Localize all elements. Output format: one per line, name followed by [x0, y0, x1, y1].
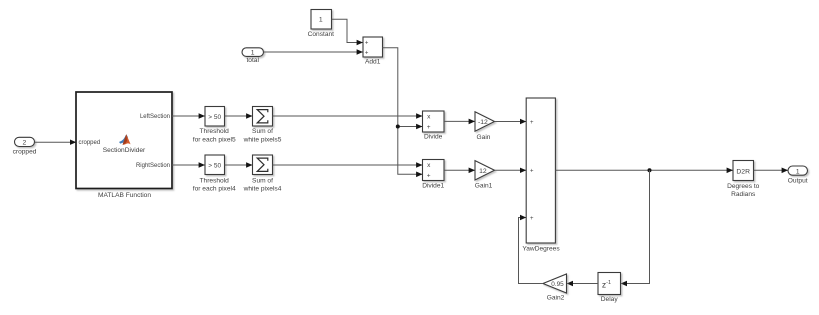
junction — [396, 125, 400, 129]
inport 1 total — [242, 48, 264, 57]
wire RightSection to Threshold4 — [172, 164, 205, 166]
wire branch to Divide second input — [398, 126, 423, 128]
svg-text:-12: -12 — [478, 119, 488, 126]
block Sum of white pixels4 — [253, 155, 273, 175]
wire Add1 to Divide1 second input — [382, 48, 422, 175]
svg-text:MATLAB Function: MATLAB Function — [98, 192, 151, 199]
MATLAB logo — [119, 134, 131, 145]
svg-text:1: 1 — [796, 168, 800, 175]
svg-text:Add1: Add1 — [365, 58, 381, 65]
svg-text:> 50: > 50 — [208, 114, 221, 121]
svg-text:SectionDivider: SectionDivider — [103, 147, 146, 154]
gain Gain1 — [475, 161, 495, 180]
svg-text:Sum of: Sum of — [252, 128, 273, 135]
wire Delay to Gain2 — [567, 283, 598, 285]
svg-text:+: + — [365, 41, 369, 47]
sum block YawDegrees — [526, 98, 555, 243]
wire Sum5 to Divide — [273, 115, 423, 117]
svg-text:Threshold: Threshold — [200, 177, 230, 184]
svg-text:2: 2 — [23, 139, 27, 146]
svg-text:Sum of: Sum of — [252, 177, 273, 184]
MATLAB Function block SectionDivider — [76, 92, 172, 189]
svg-text:+: + — [427, 124, 431, 131]
wire Gain2 to YawDegrees third input — [519, 218, 544, 284]
outport 1 Output — [788, 166, 808, 175]
svg-text:total: total — [246, 57, 259, 64]
svg-text:Gain1: Gain1 — [475, 183, 493, 190]
svg-text:Gain: Gain — [477, 134, 491, 141]
wire Constant to Add1 — [332, 19, 363, 42]
svg-text:YawDegrees: YawDegrees — [522, 245, 560, 252]
block Divide1 — [423, 160, 445, 181]
svg-text:Radians: Radians — [731, 191, 756, 198]
wire cropped to MATLAB Function — [35, 141, 76, 143]
svg-text:Delay: Delay — [601, 296, 619, 303]
svg-text:0.95: 0.95 — [551, 281, 564, 288]
svg-text:1: 1 — [251, 49, 255, 56]
svg-text:cropped: cropped — [13, 149, 37, 156]
block Divide — [423, 111, 445, 132]
block Threshold for each pixel5 — [205, 107, 225, 127]
gain Gain — [475, 112, 495, 131]
wire Divide to Gain — [444, 120, 475, 122]
block Constant — [311, 10, 332, 30]
svg-text:white pixels4: white pixels4 — [243, 185, 282, 192]
svg-text:white pixels5: white pixels5 — [243, 137, 282, 144]
svg-text:RightSection: RightSection — [136, 163, 170, 169]
svg-text:> 50: > 50 — [208, 162, 221, 169]
wire Gain1 to YawDegrees — [495, 169, 527, 171]
svg-text:Threshold: Threshold — [200, 128, 230, 135]
wire Threshold5 to Sum5 — [225, 115, 253, 117]
svg-text:Divide1: Divide1 — [422, 183, 444, 190]
svg-text:Divide: Divide — [424, 134, 443, 141]
svg-text:for each pixel5: for each pixel5 — [193, 137, 236, 144]
svg-text:Output: Output — [788, 178, 808, 185]
block Threshold for each pixel4 — [205, 155, 225, 175]
wire total to Add1 — [264, 51, 363, 53]
wire Gain to YawDegrees — [495, 121, 527, 123]
wire LeftSection to Threshold5 — [172, 115, 205, 117]
inport 2 cropped — [15, 137, 35, 146]
svg-text:+: + — [427, 173, 431, 180]
wire YawDegrees to D2R — [555, 169, 732, 171]
svg-text:D2R: D2R — [736, 168, 750, 175]
block Delay — [598, 273, 621, 295]
svg-text:Constant: Constant — [308, 31, 335, 38]
svg-text:Degrees to: Degrees to — [727, 183, 760, 190]
wire Sum4 to Divide1 — [273, 164, 423, 166]
svg-text:+: + — [365, 50, 369, 56]
block D2R Degrees to Radians — [733, 161, 754, 181]
junction — [648, 168, 652, 172]
svg-text:for each pixel4: for each pixel4 — [193, 185, 236, 192]
svg-text:+: + — [530, 216, 534, 222]
block Sum of white pixels5 — [253, 107, 273, 127]
sum block Add1 — [363, 37, 383, 57]
svg-text:Gain2: Gain2 — [547, 294, 565, 301]
svg-text:+: + — [530, 120, 534, 126]
svg-text:cropped: cropped — [79, 140, 101, 146]
wire Threshold4 to Sum4 — [225, 164, 253, 166]
svg-text:+: + — [530, 169, 534, 175]
wire Divide1 to Gain1 — [444, 169, 475, 171]
svg-text:12: 12 — [479, 168, 487, 175]
wire feedback down to Delay — [621, 170, 650, 283]
gain Gain2 — [543, 274, 567, 293]
svg-text:1: 1 — [319, 16, 323, 23]
svg-text:LeftSection: LeftSection — [140, 114, 170, 120]
wire D2R to Output — [754, 169, 788, 171]
